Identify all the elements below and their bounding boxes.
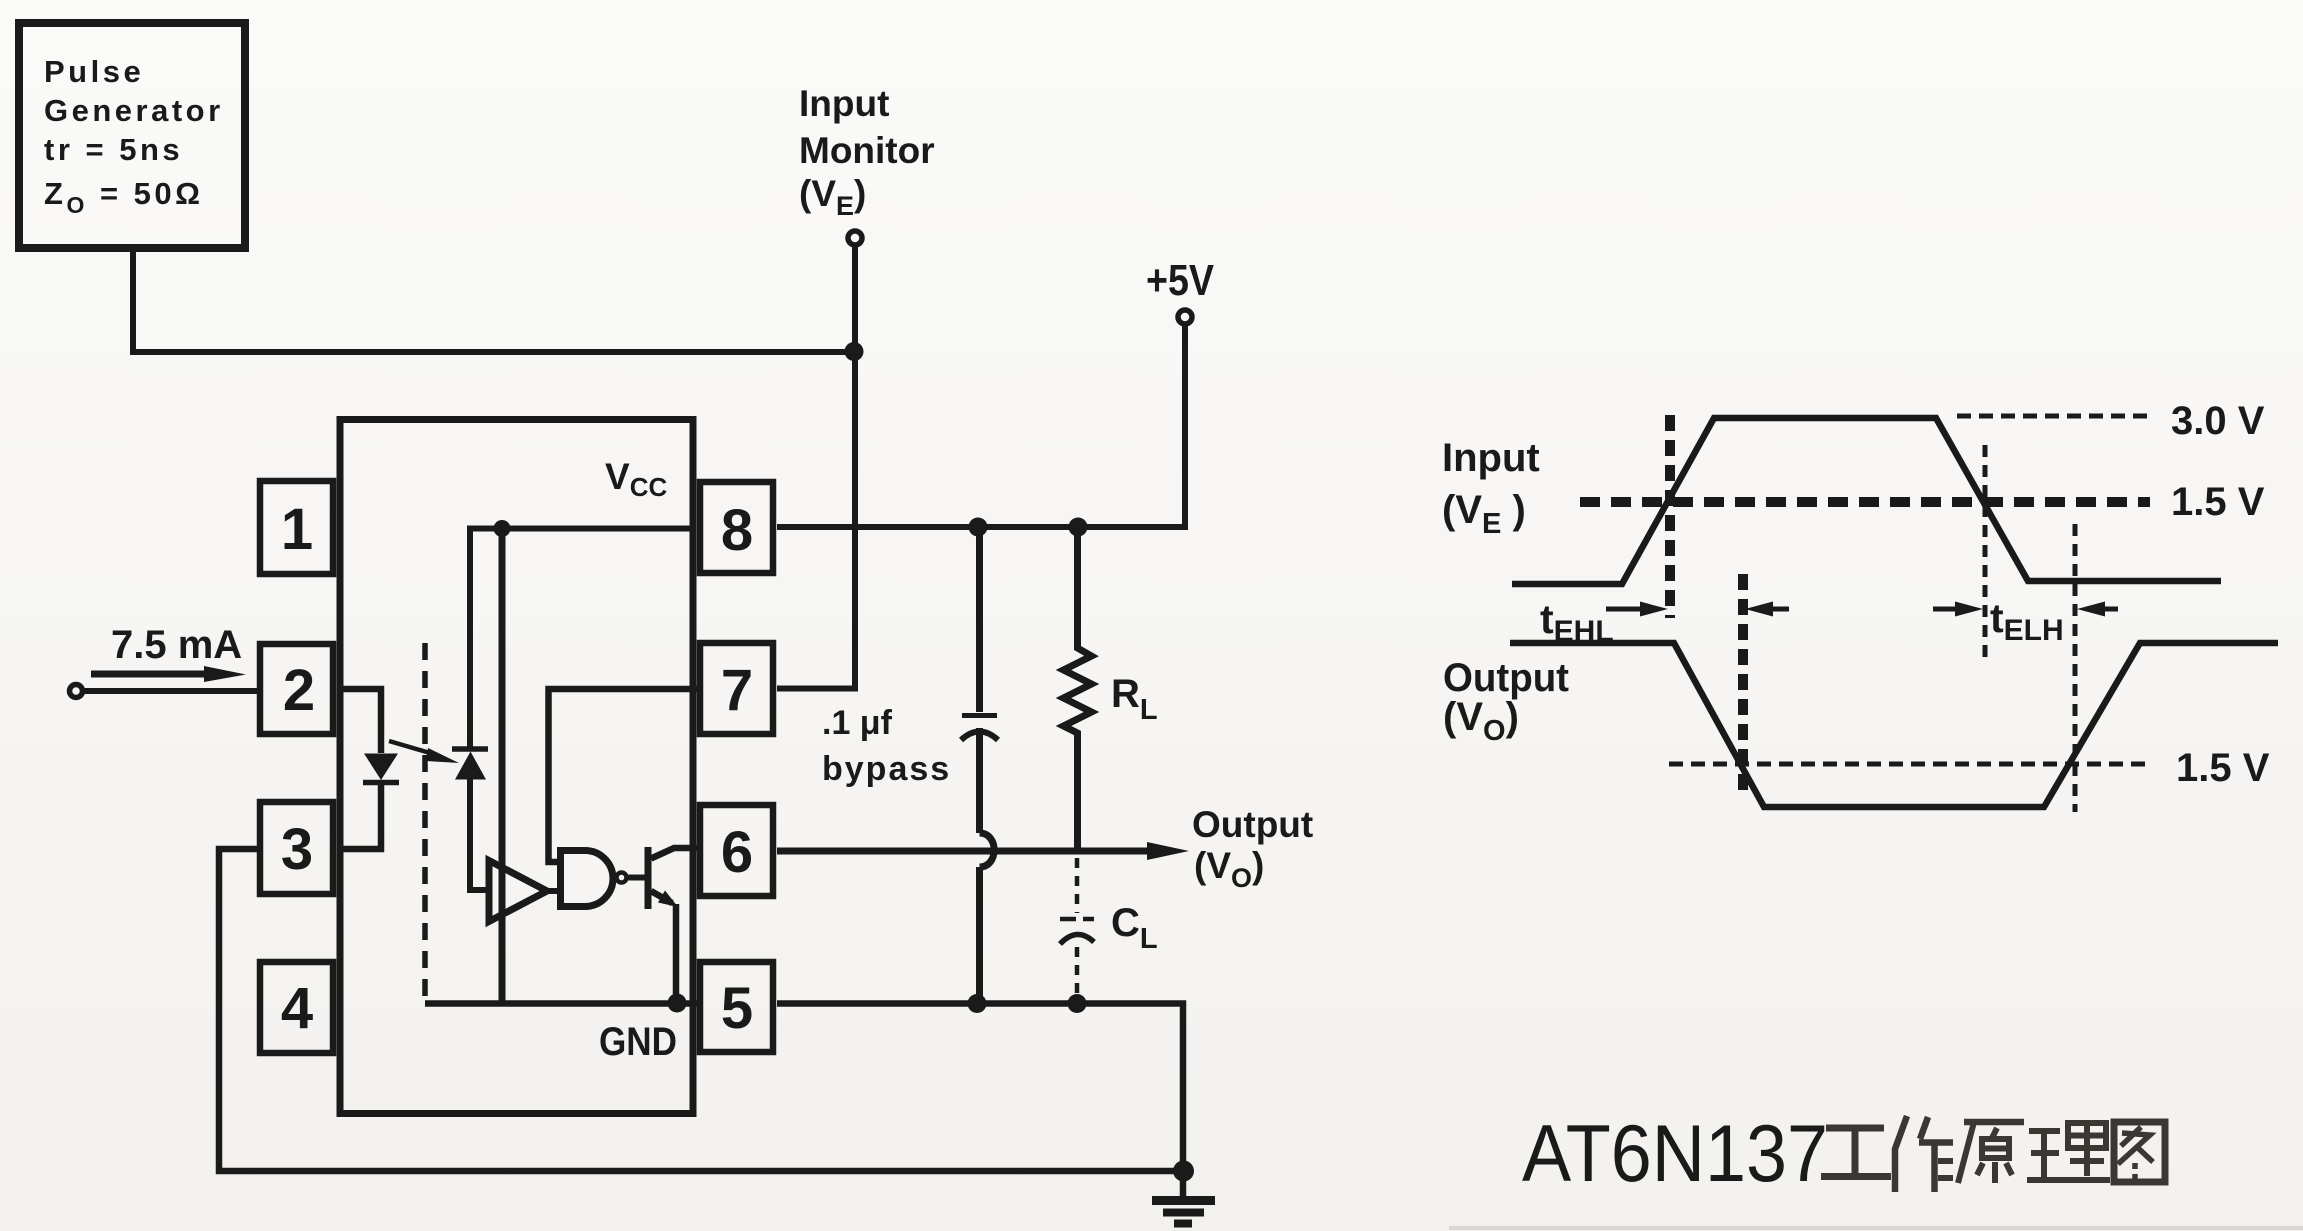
bottom hairline bbox=[1449, 1226, 2303, 1230]
optical isolation dashed line bbox=[422, 643, 428, 1001]
op-amp U1 IC body bbox=[340, 420, 693, 1114]
waveform output VO trace bbox=[1510, 643, 2278, 807]
svg-text:+5V: +5V bbox=[1146, 256, 1215, 305]
svg-text:Input: Input bbox=[799, 83, 889, 124]
svg-text:(VE): (VE) bbox=[799, 173, 866, 221]
caption chinese tu (diagram) bbox=[2114, 1122, 2165, 1182]
svg-text:7.5 mA: 7.5 mA bbox=[111, 623, 242, 667]
pin 4 bbox=[260, 962, 333, 1053]
dashed marker tELH end bbox=[2073, 524, 2078, 812]
caption chinese yuan (origin) bbox=[1958, 1122, 2024, 1183]
wire pin 7 enable loop bbox=[549, 689, 698, 862]
wire VE monitor down to pin 7 bbox=[777, 245, 855, 689]
resistor RL bbox=[1064, 527, 1092, 850]
wire LED cathode to pin 3 bbox=[337, 785, 381, 849]
caption chinese gong (work) bbox=[1821, 1116, 2165, 1192]
svg-text:1.5 V: 1.5 V bbox=[2171, 480, 2265, 524]
svg-text:2: 2 bbox=[283, 658, 315, 723]
label Output (VO) bbox=[1192, 804, 1313, 893]
label Input Monitor (VE) bbox=[799, 83, 935, 221]
svg-text:AT6N137: AT6N137 bbox=[1522, 1109, 1828, 1199]
svg-text:tr = 5ns: tr = 5ns bbox=[44, 132, 183, 167]
wire pin 2 to LED anode bbox=[337, 689, 381, 753]
junction VCC / RL bbox=[1069, 518, 1088, 537]
wire output pin 6 with arrow bbox=[777, 842, 1189, 860]
wire internal GND rail bbox=[425, 1000, 697, 1007]
label Input (VE) bbox=[1442, 436, 1540, 540]
dashed marker tELH start bbox=[1983, 445, 1988, 664]
pin 1 bbox=[260, 481, 333, 574]
pin 8 bbox=[700, 482, 773, 573]
wire amplifier output to NAND input bbox=[547, 888, 561, 894]
svg-text:bypass: bypass bbox=[822, 750, 951, 788]
caption chinese li (logic) bbox=[2027, 1123, 2110, 1180]
junction pin5 wire / bypass capacitor bbox=[968, 994, 987, 1013]
svg-text:GND: GND bbox=[599, 1020, 677, 1064]
svg-text:7: 7 bbox=[721, 658, 753, 723]
junction VE / pulse generator bbox=[845, 342, 864, 361]
svg-text:Output: Output bbox=[1192, 804, 1313, 845]
wire NAND output to Q1 base bbox=[629, 875, 649, 881]
LED D1 bbox=[363, 754, 399, 783]
wire Q1 emitter to GND rail bbox=[673, 904, 680, 1003]
svg-text:.1 μf: .1 μf bbox=[822, 704, 893, 742]
junction VCC / bypass capacitor bbox=[969, 518, 988, 537]
bold dashed level 1.5V input bbox=[1580, 497, 2150, 507]
pulse generator PG1 bbox=[19, 23, 245, 248]
terminal input drive bbox=[70, 685, 83, 698]
svg-text:5: 5 bbox=[721, 976, 753, 1041]
arrow at second marker bbox=[1745, 602, 1789, 617]
capacitor C1 bypass bbox=[961, 527, 998, 1003]
bold dashed marker tEHL start bbox=[1665, 415, 1675, 618]
pin 7 bbox=[700, 643, 773, 734]
wire pulse generator output to VE node bbox=[133, 248, 851, 352]
arrow tELH left bbox=[1933, 602, 1983, 617]
terminal VE bbox=[848, 231, 862, 245]
waveform input VE trace bbox=[1512, 418, 2221, 584]
transistor Q1 bbox=[648, 847, 697, 909]
terminal +5V bbox=[1178, 310, 1192, 324]
pin 2 bbox=[260, 644, 333, 734]
svg-text:Generator: Generator bbox=[44, 93, 224, 128]
arrow tELH right bbox=[2077, 602, 2118, 617]
dashed level 1.5V output bbox=[1669, 762, 2146, 767]
current direction arrow bbox=[91, 666, 246, 682]
svg-text:Pulse: Pulse bbox=[44, 54, 144, 89]
pin 5 bbox=[700, 962, 773, 1052]
capacitor CL bbox=[1060, 858, 1094, 1000]
svg-text:Input: Input bbox=[1442, 436, 1540, 480]
svg-text:1.5 V: 1.5 V bbox=[2176, 746, 2270, 790]
amplifier inverter U1A bbox=[489, 861, 547, 922]
NAND gate U1B bbox=[561, 851, 627, 907]
svg-text:Output: Output bbox=[1443, 656, 1569, 700]
wire pin 3 to ground return bbox=[219, 849, 1183, 1171]
wire internal supply to GND rail bbox=[499, 529, 506, 1004]
pin 6 bbox=[700, 805, 773, 896]
label .1 uf bypass bbox=[822, 704, 951, 788]
light emission arrow bbox=[389, 741, 459, 763]
junction emitter / GND rail bbox=[668, 994, 687, 1013]
svg-text:Monitor: Monitor bbox=[799, 130, 935, 171]
wire internal VCC rail bbox=[470, 529, 696, 750]
photodiode D2 bbox=[452, 749, 488, 780]
junction ground node bbox=[1173, 1161, 1194, 1182]
dashed level 3.0V bbox=[1957, 414, 2148, 419]
wire input terminal to pin 2 bbox=[84, 688, 257, 694]
arrow tEHL left bbox=[1606, 602, 1668, 617]
svg-text:8: 8 bbox=[721, 498, 753, 563]
caption chinese zuo (make) bbox=[1895, 1116, 1953, 1192]
pin 3 bbox=[260, 802, 333, 894]
svg-text:4: 4 bbox=[281, 976, 313, 1041]
junction pin5 wire / CL bbox=[1068, 994, 1087, 1013]
label Output (VO) waveform bbox=[1443, 656, 1569, 747]
svg-text:1: 1 bbox=[281, 497, 313, 562]
wire +5V down to VCC rail bbox=[777, 324, 1185, 527]
ground symbol bbox=[1152, 1171, 1215, 1224]
wire pin 5 to ground node bbox=[777, 1004, 1183, 1172]
junction internal VCC bbox=[494, 520, 511, 537]
svg-text:(VO): (VO) bbox=[1194, 845, 1264, 893]
svg-text:3: 3 bbox=[281, 817, 313, 882]
svg-text:3.0 V: 3.0 V bbox=[2171, 399, 2265, 443]
wire photodiode anode to amplifier input bbox=[470, 779, 489, 890]
bold dashed marker tEHL end bbox=[1738, 574, 1748, 796]
svg-text:6: 6 bbox=[721, 820, 753, 885]
